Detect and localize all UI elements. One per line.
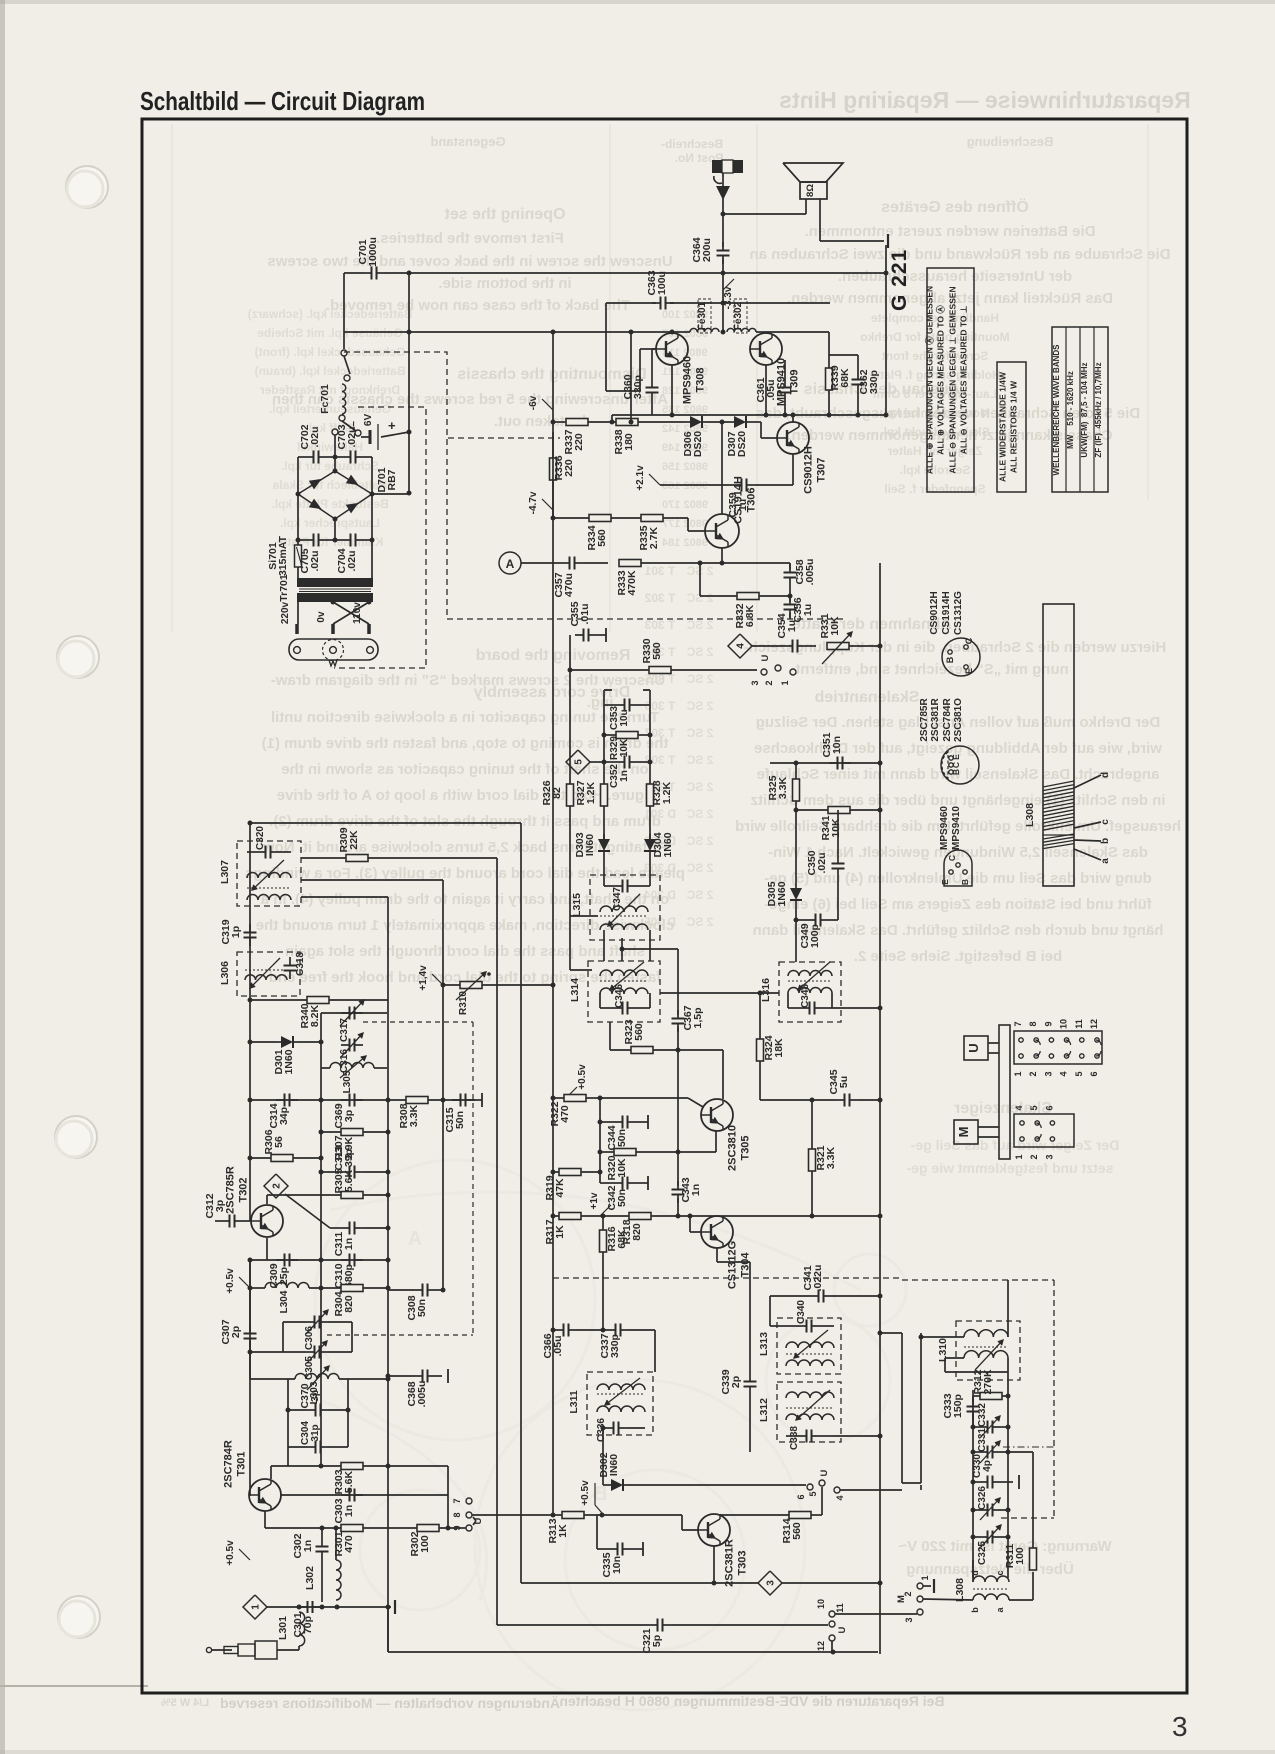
svg-text:WELLENBEREICHE WAVE BANDS: WELLENBEREICHE WAVE BANDS: [1052, 344, 1061, 476]
svg-text:Lautsprecher kpl.: Lautsprecher kpl.: [280, 516, 380, 530]
svg-text:10K: 10K: [616, 1158, 628, 1178]
resistor R320 10K: [614, 1149, 636, 1156]
mains plug: [289, 639, 378, 660]
capacitor C339 2p: [749, 1373, 751, 1382]
transistor T301 2SC784R: [249, 1479, 281, 1511]
svg-text:.02u: .02u: [309, 550, 321, 571]
svg-text:Halteblech für Skala: Halteblech für Skala: [272, 478, 387, 492]
svg-text:b: b: [1100, 838, 1111, 844]
svg-text:3p: 3p: [309, 1390, 321, 1402]
wire C701 left leg: [344, 272, 363, 274]
IF transformer L311: [587, 1372, 653, 1435]
svg-text:C352: C352: [609, 764, 620, 788]
wire to T307 base: [760, 422, 762, 438]
capacitor C303 1n: [341, 1494, 350, 1496]
svg-text:−: −: [349, 421, 360, 427]
svg-text:b: b: [970, 1607, 980, 1613]
svg-text:10u: 10u: [619, 709, 630, 726]
wire antenna bus y1607: [267, 1606, 391, 1608]
capacitor C321 5p: [649, 1624, 658, 1626]
svg-text:68K: 68K: [616, 1229, 628, 1249]
svg-text:L/4 W 5%: L/4 W 5%: [161, 1697, 210, 1709]
wire x880 main IF rail: [879, 563, 881, 1654]
svg-text:c: c: [1100, 819, 1111, 825]
svg-text:B: B: [945, 656, 955, 663]
svg-text:47K: 47K: [554, 1178, 566, 1198]
svg-text:34p: 34p: [278, 1107, 290, 1125]
svg-text:330p: 330p: [868, 370, 880, 394]
variable capacitor C306: [306, 1321, 315, 1323]
resistor R325 3.3K: [793, 779, 800, 801]
svg-text:+1v: +1v: [589, 1192, 600, 1209]
resistor R328 1.2K: [647, 784, 654, 806]
oscillator coil L310: [956, 1321, 1020, 1380]
diode D303 IN60: [603, 834, 605, 839]
capacitor C368 .005u: [414, 1375, 423, 1377]
wire T304/T305 emitters: [716, 1248, 718, 1262]
svg-text:Die Batterien werden zuerst en: Die Batterien werden zuerst entnommen.: [805, 223, 1096, 240]
capacitor C360 330p: [651, 379, 653, 388]
osc cap ladder rails: [287, 1379, 289, 1447]
wire T301 collector: [270, 1466, 272, 1479]
wire L308 d leg: [972, 1560, 974, 1582]
capacitor C345 5u: [836, 1099, 845, 1101]
svg-text:-6v: -6v: [528, 395, 539, 410]
wire y1625 C321: [497, 1624, 649, 1626]
svg-text:Gegenstand: Gegenstand: [430, 134, 505, 149]
svg-text:U: U: [837, 1626, 848, 1633]
antenna plug: [206, 1647, 211, 1652]
capacitor C359 1u: [733, 484, 742, 486]
wire x921 vertical: [920, 1485, 922, 1490]
svg-text:2SC784R: 2SC784R: [942, 698, 953, 742]
svg-text:After unscrewing the 5 red scr: After unscrewing the 5 red screws the ch…: [272, 391, 668, 408]
wire L308 to R311: [1009, 1599, 1033, 1601]
svg-text:.05u: .05u: [765, 379, 777, 400]
wire C701 to node: [385, 272, 409, 274]
resistor R319 47K: [559, 1169, 581, 1176]
svg-text:T301: T301: [236, 1451, 248, 1476]
svg-text:6: 6: [1089, 1071, 1099, 1076]
variable capacitor C305: [306, 1351, 315, 1353]
svg-text:Skalenantrieb: Skalenantrieb: [814, 689, 919, 706]
coil Fc701: [342, 384, 346, 414]
capacitor C307 2p: [249, 1325, 251, 1334]
svg-text:9802 184: 9802 184: [661, 537, 708, 549]
svg-text:2 SC: 2 SC: [686, 915, 713, 929]
svg-text:Schraube für kpl.: Schraube für kpl.: [281, 459, 379, 473]
wire T305 base stub: [715, 1131, 717, 1152]
svg-text:Fe302: Fe302: [733, 301, 744, 330]
svg-text:1,5p: 1,5p: [692, 1007, 704, 1028]
svg-text:Der Zeiger wird auf das Seil g: Der Zeiger wird auf das Seil ge-: [910, 1137, 1119, 1153]
svg-text:Beschreibung: Beschreibung: [967, 134, 1054, 149]
resistor R304 820: [341, 1285, 363, 1292]
svg-text:9802 177: 9802 177: [662, 518, 708, 530]
svg-text:1n: 1n: [343, 1238, 355, 1250]
svg-text:Fc701: Fc701: [319, 384, 331, 414]
svg-text:C320: C320: [255, 826, 266, 850]
svg-text:.01u: .01u: [579, 603, 591, 624]
svg-text:2p: 2p: [730, 1376, 742, 1388]
svg-text:.005u: .005u: [416, 1381, 428, 1408]
svg-text:C: C: [964, 637, 974, 644]
wire y1485 to D302: [602, 1428, 604, 1485]
svg-text:.005u: .005u: [804, 559, 816, 586]
switch contacts U 7 8 9: [466, 1498, 472, 1504]
svg-text:1u: 1u: [802, 604, 814, 616]
wire y1583 from x521: [521, 1582, 714, 1584]
capacitor C367 1.5p: [677, 1010, 679, 1019]
svg-text:1.2K: 1.2K: [661, 781, 673, 804]
svg-text:6: 6: [1044, 1105, 1054, 1110]
switch M knob: [954, 1120, 978, 1144]
voltage +2.1v: [649, 474, 660, 485]
wire T301 base from rail: [249, 1260, 251, 1495]
wire main +rail y274: [409, 272, 886, 274]
wire speaker terminals: [805, 199, 807, 214]
svg-text:C318: C318: [295, 952, 306, 976]
svg-text:820: 820: [343, 1295, 355, 1313]
svg-text:3.3K: 3.3K: [777, 776, 789, 799]
wire secondary right leg: [371, 540, 373, 578]
svg-text:315mAT: 315mAT: [277, 535, 289, 576]
svg-text:C317: C317: [339, 1018, 350, 1042]
svg-text:1n: 1n: [690, 1184, 702, 1196]
svg-text:führt und bei Station des Zeig: führt und bei Station des Zeigers am Sei…: [764, 896, 1152, 913]
svg-text:10n: 10n: [831, 736, 843, 754]
svg-text:Abnahmen der Platte: Abnahmen der Platte: [792, 616, 952, 633]
capacitor C358 .005u: [789, 564, 791, 573]
svg-text:CS9012H: CS9012H: [803, 446, 815, 494]
wire R326 column: [569, 670, 571, 970]
variable capacitor C332: [979, 1426, 988, 1428]
variable capacitor C326: [979, 1509, 988, 1511]
svg-text:50n: 50n: [454, 1111, 466, 1129]
wire x448 link: [447, 1466, 449, 1528]
capacitor C370 3p: [307, 1409, 316, 1411]
svg-text:M: M: [896, 1595, 907, 1603]
svg-text:T302: T302: [238, 1177, 250, 1202]
svg-text:560: 560: [596, 529, 608, 547]
svg-text:2 SC: 2 SC: [686, 699, 713, 713]
svg-text:330p: 330p: [609, 1334, 621, 1358]
RF transformer L306: [237, 952, 300, 996]
border frame: [142, 119, 1187, 1693]
transistor T306 CS1914H: [705, 514, 739, 548]
transistor T305 2SC3810: [701, 1099, 733, 1131]
resistor R340 8.2K: [307, 997, 329, 1004]
svg-text:39p: 39p: [343, 1149, 355, 1167]
resistor R326 82: [567, 784, 574, 806]
wire right rail x886: [885, 245, 887, 415]
svg-text:drum and pass it through the s: drum and pass it through the slot of the…: [269, 813, 661, 830]
capacitor C350 .02u: [837, 855, 839, 864]
diamond node 4: [728, 634, 752, 658]
dashed box right x1054: [1053, 1280, 1055, 1518]
svg-text:+0.5v: +0.5v: [577, 1064, 588, 1090]
svg-text:4: 4: [835, 1495, 845, 1500]
svg-text:nung mit „S“ bezeichnet sind,: nung mit „S“ bezeichnet sind, entfernt.: [791, 661, 1069, 678]
wire into T306 base: [687, 518, 689, 531]
wire T305 collector: [722, 1050, 724, 1099]
svg-text:9802 156: 9802 156: [662, 461, 708, 473]
svg-text:E: E: [951, 754, 961, 760]
wire bus y670: [570, 669, 757, 671]
bridge rectifier D701 RB7: [298, 471, 372, 519]
resistor R305 5.6K: [341, 1192, 363, 1199]
svg-text:68K: 68K: [839, 368, 851, 388]
wire L315 to L314: [603, 930, 605, 961]
wire x678 column: [677, 949, 679, 1015]
svg-text:T308: T308: [695, 367, 707, 392]
wire bus y1515: [553, 1514, 562, 1516]
wire T301 emitter: [264, 1511, 266, 1528]
wire bus y332: [344, 331, 690, 333]
svg-text:C338: C338: [789, 1426, 800, 1450]
svg-text:100u: 100u: [656, 271, 668, 295]
svg-text:5u: 5u: [838, 1076, 850, 1088]
svg-text:3: 3: [1043, 1071, 1053, 1076]
svg-text:2SC785R: 2SC785R: [225, 1166, 237, 1214]
wire x388 to ground run: [387, 1607, 389, 1652]
svg-text:31p: 31p: [310, 1424, 321, 1441]
resistor R312 270K: [980, 1393, 1002, 1400]
ladder rails C353 R329 C352: [603, 690, 605, 751]
svg-text:T 302: T 302: [644, 591, 675, 605]
svg-text:ALLE WIDERSTÄNDE 1/4W: ALLE WIDERSTÄNDE 1/4W: [998, 371, 1008, 482]
voltage -4.2v: [542, 499, 553, 510]
svg-text:5: 5: [808, 1491, 818, 1496]
svg-text:Gehäuse kpl. mit Scheibe: Gehäuse kpl. mit Scheibe: [257, 326, 403, 340]
capacitor C314 34p: [276, 1099, 285, 1101]
svg-text:Klammer für Platte: Klammer für Platte: [276, 535, 383, 549]
svg-text:100: 100: [419, 1535, 431, 1553]
svg-text:4: 4: [1059, 1071, 1069, 1076]
svg-text:L305: L305: [342, 1070, 353, 1093]
wire bus y303: [606, 302, 656, 304]
capacitor C344 50n: [599, 1098, 601, 1183]
svg-text:c: c: [995, 1570, 1005, 1575]
svg-text:ALL RESISTORS 1/4 W: ALL RESISTORS 1/4 W: [1009, 380, 1019, 473]
svg-text:M: M: [956, 1127, 971, 1138]
capacitor C705: [305, 539, 314, 541]
svg-text:CS1914H: CS1914H: [941, 591, 952, 634]
capacitor C349 100p: [807, 919, 816, 921]
svg-text:2 SC: 2 SC: [686, 807, 713, 821]
svg-text:U: U: [819, 1469, 830, 1476]
svg-text:11: 11: [1074, 1019, 1084, 1029]
terminal 110v: [367, 624, 371, 634]
svg-text:2.7K: 2.7K: [648, 526, 660, 549]
svg-text:8: 8: [452, 1512, 462, 1517]
wire bridge bottom rail: [297, 494, 299, 545]
svg-text:A: A: [408, 1228, 422, 1250]
wire rail x443: [301, 879, 443, 881]
wire T303 emitter: [713, 1546, 715, 1583]
svg-text:3: 3: [766, 1580, 777, 1586]
IF transformer L316: [779, 962, 841, 1022]
svg-text:50n: 50n: [616, 1129, 628, 1147]
wire bus y422: [553, 421, 566, 423]
svg-text:C340: C340: [796, 1300, 807, 1324]
svg-text:setzt und festgeklemmt wie ge-: setzt und festgeklemmt wie ge-: [906, 1160, 1113, 1176]
resistor R301 470: [341, 1525, 363, 1532]
svg-text:2SC381R: 2SC381R: [930, 698, 941, 742]
svg-text:10K: 10K: [619, 738, 630, 757]
IF transformer L313: [777, 1318, 841, 1374]
svg-text:CS1312G: CS1312G: [727, 1241, 739, 1289]
svg-text:470: 470: [559, 1105, 571, 1123]
voltage +0.5v: [566, 1087, 577, 1098]
resistor R330 560: [649, 667, 671, 674]
svg-text:2SC381R: 2SC381R: [724, 1539, 736, 1587]
svg-text:50n: 50n: [616, 1189, 628, 1207]
svg-text:DS20: DS20: [692, 431, 704, 457]
coil L303: [295, 1374, 339, 1380]
capacitor C315 50n: [452, 1099, 461, 1101]
svg-text:2: 2: [1029, 1154, 1039, 1159]
svg-text:T303: T303: [737, 1550, 749, 1575]
svg-text:+2.1v: +2.1v: [635, 465, 646, 491]
svg-text:C: C: [947, 855, 957, 861]
capacitor C308 50n: [414, 1289, 423, 1291]
resistor R309 22K: [346, 855, 368, 862]
svg-text:560: 560: [651, 642, 663, 660]
svg-text:+: +: [388, 418, 396, 433]
resistor R334 560: [589, 515, 611, 522]
dashed gang link C306: [327, 1334, 473, 1336]
svg-text:.02u: .02u: [346, 550, 358, 571]
svg-text:2 SC: 2 SC: [686, 780, 713, 794]
svg-text:Seilrolle kpl.: Seilrolle kpl.: [900, 463, 971, 477]
svg-text:.022u: .022u: [812, 1265, 824, 1292]
svg-text:MW 510 - 1620 kHz: MW 510 - 1620 kHz: [1066, 371, 1075, 449]
wire y823 long: [250, 822, 521, 824]
svg-text:50n: 50n: [416, 1299, 428, 1317]
svg-text:.05u: .05u: [552, 1335, 564, 1356]
svg-text:3p: 3p: [214, 1200, 226, 1212]
svg-text:110v: 110v: [352, 602, 363, 624]
resistor R338 180: [616, 419, 638, 426]
svg-text:2SC785R: 2SC785R: [919, 698, 930, 742]
svg-text:9: 9: [452, 1525, 462, 1530]
wire T303 collector: [719, 1514, 721, 1515]
svg-text:1N60: 1N60: [776, 881, 788, 906]
svg-text:Batteriedeckel kpl. (schwarz): Batteriedeckel kpl. (schwarz): [248, 307, 413, 321]
switch Fc701 contacts: [341, 350, 347, 356]
wire bus y1216: [553, 1215, 880, 1217]
wire L315 output jog: [621, 938, 623, 949]
svg-text:2SC3810: 2SC3810: [727, 1125, 739, 1171]
switch contacts U 3 2 1: [761, 669, 767, 675]
transistor T302 2SC785R: [251, 1205, 283, 1237]
terminal 0v: [331, 624, 335, 634]
svg-text:2 SC: 2 SC: [686, 861, 713, 875]
wire rail x553: [552, 332, 554, 1515]
wire bridge right to rail: [372, 493, 409, 495]
rod winding leads: [1074, 775, 1101, 788]
svg-text:2 SC: 2 SC: [686, 753, 713, 767]
svg-text:C: C: [951, 762, 961, 768]
svg-text:2: 2: [272, 1183, 283, 1189]
capacitor C364 200u: [722, 242, 724, 251]
svg-text:100p: 100p: [809, 924, 821, 948]
right IF ladder: [770, 762, 880, 764]
switch contacts U 6 5 4: [807, 1484, 813, 1490]
svg-text:2SC381O: 2SC381O: [953, 698, 964, 742]
svg-text:4p: 4p: [982, 1460, 993, 1472]
bleed-through text from reverse page: [161, 87, 1191, 1711]
svg-text:Hierzu werden die 2 Schrauben,: Hierzu werden die 2 Schrauben, die in de…: [744, 639, 1167, 656]
capacitor C302 1n: [321, 1538, 323, 1547]
svg-text:T 303: T 303: [644, 618, 675, 632]
table WELLENBEREICHE wave bands: [1052, 327, 1108, 492]
resistor R332 6.8K: [737, 593, 759, 600]
svg-text:RB7: RB7: [386, 469, 398, 490]
svg-text:Schaltbild — Circuit Diagram: Schaltbild — Circuit Diagram: [140, 86, 425, 116]
wire rail x321: [320, 1013, 322, 1466]
svg-text:10n: 10n: [611, 1556, 623, 1574]
svg-text:2p: 2p: [230, 1326, 242, 1338]
svg-text:T307: T307: [816, 457, 828, 482]
svg-text:d: d: [1100, 772, 1111, 778]
svg-text:180: 180: [623, 433, 635, 451]
wire rail x388: [301, 896, 388, 898]
battery 6V: [361, 436, 370, 438]
capacitor C702: [305, 456, 314, 458]
diode D307 DS20: [729, 421, 734, 423]
svg-text:L308: L308: [954, 1578, 966, 1602]
svg-text:Änderungen vorbehalten — Modif: Änderungen vorbehalten — Modifications r…: [220, 1695, 560, 1711]
svg-text:a: a: [1100, 858, 1111, 864]
diode D302 IN60: [606, 1484, 611, 1486]
capacitor C343 1n: [677, 1181, 679, 1190]
wire base bus y518: [553, 517, 589, 519]
svg-text:First remove the batteries.: First remove the batteries.: [376, 230, 564, 247]
svg-text:bei B befestigt. Siehe Seit: bei B befestigt. Siehe Seite 2.: [854, 948, 1062, 965]
svg-text:3: 3: [904, 1617, 914, 1622]
svg-text:MPS9460: MPS9460: [939, 806, 950, 850]
svg-text:B: B: [960, 879, 970, 885]
svg-text:12: 12: [816, 1641, 826, 1651]
svg-text:820: 820: [631, 1223, 643, 1241]
wire bus y1529: [265, 1527, 462, 1529]
svg-text:1K: 1K: [557, 1524, 569, 1538]
resistor R323 560: [631, 1047, 653, 1054]
svg-text:1K: 1K: [554, 1225, 566, 1239]
svg-text:C330: C330: [972, 1454, 983, 1478]
svg-text:1N60: 1N60: [662, 832, 674, 857]
svg-text:220: 220: [573, 433, 585, 451]
svg-text:L304: L304: [279, 1290, 290, 1313]
wire T306 collector: [721, 422, 723, 514]
resistor R306 56: [271, 1155, 293, 1162]
svg-text:IN60: IN60: [608, 1454, 620, 1476]
svg-text:12: 12: [1089, 1019, 1099, 1029]
scan edge shadows: [0, 0, 5, 1754]
resistor R317 1K: [559, 1213, 581, 1220]
svg-text:CS9012H: CS9012H: [929, 591, 940, 634]
wire emitter bus y415: [612, 414, 886, 416]
svg-text:L306: L306: [219, 961, 231, 985]
resistor R314 560: [789, 1512, 811, 1519]
capacitor C366 .05u: [555, 1329, 564, 1331]
variable capacitor C331: [979, 1451, 988, 1453]
svg-text:C346: C346: [614, 984, 625, 1008]
fuse Si701 315mAT: [295, 545, 302, 567]
speaker 8 ohm: [783, 163, 843, 182]
